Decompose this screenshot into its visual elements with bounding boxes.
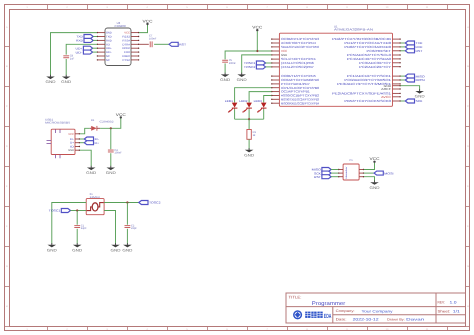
svg-text:DCD#: DCD#: [122, 47, 130, 50]
svg-text:GND: GND: [220, 78, 230, 82]
U1 pin names: [281, 37, 392, 105]
port MISO right: [405, 74, 425, 78]
junction: [256, 50, 258, 52]
svg-text:GND: GND: [47, 248, 57, 252]
power VCC: [143, 19, 153, 25]
svg-text:TOSC1: TOSC1: [49, 209, 61, 213]
svg-text:UD-: UD-: [106, 51, 112, 54]
port RST right: [405, 49, 422, 53]
junction: [76, 209, 78, 211]
wire MISO to P1: [331, 169, 338, 171]
svg-text:TXD: TXD: [106, 36, 112, 39]
svg-text:12MHz: 12MHz: [90, 196, 101, 199]
svg-text:LED3: LED3: [254, 100, 263, 103]
svg-text:SCK: SCK: [416, 99, 423, 103]
svg-text:GND: GND: [46, 80, 56, 84]
wire TOSC2: [266, 66, 272, 68]
junction: [126, 201, 128, 203]
capacitor C8: [63, 55, 74, 61]
wire X1 case to ground: [52, 203, 86, 244]
svg-text:TOSC2: TOSC2: [244, 65, 256, 69]
LED LED3: [254, 100, 267, 113]
wire D1 to VCC: [100, 118, 121, 128]
ground: [106, 166, 116, 175]
wire U1 PB2 to LED2: [249, 92, 271, 103]
svg-text:100nF: 100nF: [229, 62, 237, 65]
svg-text:DSR#: DSR#: [122, 55, 130, 58]
U1 right pins: [393, 38, 401, 101]
svg-text:Header: Header: [345, 166, 348, 178]
svg-text:PC2/ADC2/PTCY: PC2/ADC2/PTCY: [359, 65, 391, 69]
svg-text:C204032: C204032: [100, 121, 115, 124]
LED LED2: [239, 100, 252, 113]
svg-text:GND: GND: [122, 248, 132, 252]
svg-text:GND: GND: [111, 248, 121, 252]
wire C1 to ground: [76, 229, 78, 244]
ground: [111, 243, 121, 252]
U3 left pins: [97, 32, 105, 61]
port MISO to P1: [312, 168, 331, 172]
logo JLCEDA: [294, 311, 332, 320]
svg-text:VCC: VCC: [143, 19, 153, 23]
svg-text:VCC: VCC: [124, 32, 130, 35]
wire U3 V3 to C8: [66, 44, 97, 54]
svg-text:RXD: RXD: [106, 39, 112, 42]
power VCC: [116, 113, 126, 119]
svg-text:GND: GND: [61, 80, 71, 84]
capacitor C7: [149, 35, 157, 48]
port RST: [169, 42, 186, 46]
wire U1 GND: [242, 55, 272, 73]
USB1 pin names: [68, 133, 74, 152]
IC U3 CH340C body: [105, 21, 131, 65]
svg-text:TITLE:: TITLE:: [289, 295, 302, 299]
svg-text:GND: GND: [106, 32, 112, 35]
wire X1 case2 to ground: [104, 211, 115, 244]
port TXD: [76, 35, 93, 39]
junction: [248, 118, 250, 120]
wire LED common bus: [235, 118, 264, 120]
svg-text:Your Company: Your Company: [362, 309, 393, 313]
svg-text:GND: GND: [86, 171, 96, 175]
capacitor C5: [222, 59, 236, 65]
wire RXD: [93, 39, 97, 41]
USB1 mechanical pins: [47, 129, 61, 158]
svg-text:PB5/PTCXY/XCK5/SCK0: PB5/PTCXY/XCK5/SCK0: [344, 99, 391, 103]
title block text: [289, 295, 460, 321]
wire U1 MOSI: [401, 79, 406, 81]
svg-text:TOSC2: TOSC2: [149, 201, 161, 205]
svg-text:Sheet:: Sheet:: [438, 310, 451, 314]
wire U1 RXD: [401, 46, 406, 48]
ground: [47, 243, 57, 252]
wire C5 to ground: [224, 63, 226, 73]
capacitor C1: [74, 224, 87, 230]
wire C4 to ground: [110, 153, 112, 166]
ground: [122, 243, 132, 252]
LED LED1: [225, 100, 238, 113]
capacitor C4: [108, 149, 122, 155]
svg-text:1/1: 1/1: [453, 310, 460, 314]
wire P1 MOSI: [364, 172, 374, 174]
svg-text:LED1: LED1: [225, 100, 234, 103]
wire U3 DTR to C7: [139, 43, 149, 45]
ground: [370, 181, 380, 190]
port RXD right: [405, 45, 422, 49]
port RST to P1: [314, 175, 331, 179]
port UD-: [76, 50, 93, 54]
port TOSC1 to U1: [244, 61, 266, 65]
port MOSI right: [405, 78, 425, 82]
wire UD+: [93, 47, 97, 49]
svg-text:CTS#: CTS#: [122, 59, 130, 62]
svg-text:V3: V3: [106, 43, 110, 46]
svg-text:22pF: 22pF: [131, 227, 137, 230]
wire U1 PB1 to LED1: [235, 88, 272, 103]
svg-text:2022-10-12: 2022-10-12: [353, 318, 379, 322]
svg-text:C: C: [6, 105, 8, 108]
wire VCC branch to C5: [225, 51, 257, 59]
connector USB1 MICROUSB body: [45, 119, 75, 155]
svg-text:MISO0/RXD1/OC2B/PTCXY/PB4: MISO0/RXD1/OC2B/PTCXY/PB4: [281, 101, 319, 105]
port D-: [84, 137, 99, 141]
port TOSC1: [49, 209, 71, 213]
wire USB VCC to D1: [80, 128, 90, 134]
ground: [244, 148, 254, 157]
svg-text:GND: GND: [72, 248, 82, 252]
U1 left pins: [271, 38, 279, 104]
svg-text:NC: NC: [106, 59, 110, 62]
port TOSC2 to U1: [244, 65, 266, 69]
svg-text:ID: ID: [70, 146, 74, 149]
svg-text:D+: D+: [95, 141, 100, 145]
svg-text:UD-: UD-: [76, 50, 83, 54]
ground: [86, 166, 96, 175]
wire TXD: [93, 36, 97, 38]
svg-text:Company:: Company:: [336, 309, 355, 313]
U3 pin names: [106, 32, 131, 62]
svg-text:AREF: AREF: [381, 87, 391, 91]
port D+: [84, 141, 99, 145]
svg-text:C: C: [467, 105, 469, 108]
svg-text:GND: GND: [244, 153, 254, 157]
wire U1 MISO: [401, 75, 406, 77]
svg-text:VCC: VCC: [252, 26, 262, 30]
ground: [237, 73, 247, 82]
port UD+: [76, 46, 93, 50]
crystal X1 body: [86, 193, 104, 215]
svg-text:Programmer: Programmer: [312, 301, 346, 307]
svg-text:D+: D+: [70, 142, 74, 145]
wire U3 VCC: [139, 25, 148, 33]
svg-text:H: H: [6, 305, 8, 308]
svg-text:LED2: LED2: [239, 100, 248, 103]
svg-text:1.0: 1.0: [450, 301, 457, 305]
port TOSC2: [139, 201, 161, 205]
svg-text:RTS#: RTS#: [122, 39, 130, 42]
wire SCK to P1: [331, 172, 338, 174]
svg-text:CH340C: CH340C: [115, 24, 127, 28]
svg-text:D-: D-: [70, 138, 74, 141]
capacitor C2: [125, 224, 138, 230]
svg-text:D: D: [6, 145, 8, 148]
wire U1 RST: [401, 50, 406, 52]
svg-text:GND: GND: [415, 95, 425, 99]
svg-text:22pF: 22pF: [81, 227, 87, 230]
port RXD: [76, 38, 93, 42]
svg-text:MICROUSB5B5: MICROUSB5B5: [45, 122, 71, 125]
wire to C1: [76, 211, 78, 225]
svg-text:R232: R232: [122, 36, 130, 39]
svg-text:Drawn By:: Drawn By:: [387, 318, 405, 322]
svg-text:VCC: VCC: [116, 113, 126, 117]
svg-text:GND: GND: [106, 171, 116, 175]
svg-text:MOSI: MOSI: [416, 78, 425, 82]
wire U1 GND right: [401, 86, 420, 91]
svg-text:G: G: [467, 265, 469, 268]
wire bus to R1: [248, 119, 250, 129]
wire VCC to U1: [257, 31, 271, 51]
svg-text:UD+: UD+: [106, 47, 112, 50]
svg-text:NC: NC: [106, 55, 110, 58]
wire C7 to RST: [154, 43, 169, 45]
IC U1 ATMEGA328PB-AN body: [279, 24, 392, 106]
ground: [46, 75, 56, 84]
svg-text:H: H: [467, 305, 469, 308]
svg-text:GND: GND: [370, 186, 380, 190]
port MOSI to P1: [374, 171, 394, 175]
wire to C4: [110, 128, 112, 149]
header P1 body: [343, 159, 359, 180]
wire LED3 cathode: [263, 109, 265, 119]
svg-text:GND: GND: [68, 149, 74, 152]
wire U3 GND to ground: [51, 33, 98, 76]
svg-text:VCC: VCC: [68, 133, 74, 136]
wire RST to P1: [331, 176, 338, 178]
wire U1 SCK: [401, 100, 406, 102]
wire C8 to ground: [65, 59, 67, 75]
wire USB D-: [80, 138, 85, 140]
port SCK right: [405, 99, 422, 103]
svg-text:MOSI: MOSI: [384, 171, 393, 175]
title block frame: [286, 293, 466, 323]
junction: [110, 127, 112, 129]
svg-text:(XTAL2/TOSC2)PB7: (XTAL2/TOSC2)PB7: [281, 65, 314, 69]
svg-text:RST: RST: [314, 175, 321, 179]
svg-text:Davan: Davan: [406, 318, 424, 322]
wire UD-: [93, 51, 97, 53]
svg-text:100nF: 100nF: [149, 37, 157, 40]
svg-text:RST: RST: [416, 49, 423, 53]
svg-text:RST: RST: [179, 43, 186, 47]
ground: [72, 243, 82, 252]
svg-text:REV:: REV:: [438, 301, 446, 305]
port TXD right: [405, 41, 422, 45]
ground: [61, 75, 71, 84]
resistor R1: [247, 130, 257, 140]
svg-text:100nF: 100nF: [114, 152, 122, 155]
wire R1 to ground: [248, 139, 250, 149]
wire P1 to VCC: [364, 163, 375, 170]
wire to C2: [126, 203, 128, 225]
svg-text:D1: D1: [91, 119, 95, 122]
diode D1: [90, 119, 114, 131]
ground: [220, 73, 230, 82]
wire P1 to ground: [364, 177, 375, 181]
USB1 signal pins: [75, 133, 80, 151]
P1 pins: [338, 169, 364, 178]
svg-text:G: G: [6, 265, 8, 268]
svg-text:DTR#: DTR#: [122, 43, 130, 46]
power VCC: [252, 26, 262, 32]
svg-text:RXD: RXD: [76, 39, 83, 43]
U3 right pins: [131, 32, 139, 61]
wire C2 to ground: [126, 229, 128, 244]
power VCC: [370, 157, 380, 163]
wire U1 TXD: [401, 42, 406, 44]
wire TOSC1 to X1: [71, 210, 87, 212]
svg-text:ATMEGA328PB-AN: ATMEGA328PB-AN: [334, 28, 373, 32]
wire X1 to TOSC2: [104, 202, 139, 204]
svg-text:VCC: VCC: [370, 157, 380, 161]
wire LED2 cathode: [248, 109, 250, 119]
wire USB D+: [80, 142, 85, 144]
svg-text:1uF: 1uF: [70, 57, 75, 60]
svg-text:RI#: RI#: [124, 51, 130, 54]
wire LED1 cathode: [234, 109, 236, 119]
ground: [415, 89, 425, 98]
wire USB GND: [80, 150, 91, 166]
svg-text:GND: GND: [237, 78, 247, 82]
svg-text:P1: P1: [350, 159, 354, 162]
port SCK to P1: [314, 171, 331, 175]
svg-text:EDA: EDA: [324, 313, 332, 320]
wire U1 PB3 to LED3: [264, 96, 272, 103]
wire TOSC1: [266, 62, 272, 64]
svg-text:Date:: Date:: [336, 318, 347, 322]
svg-text:D: D: [467, 145, 469, 148]
